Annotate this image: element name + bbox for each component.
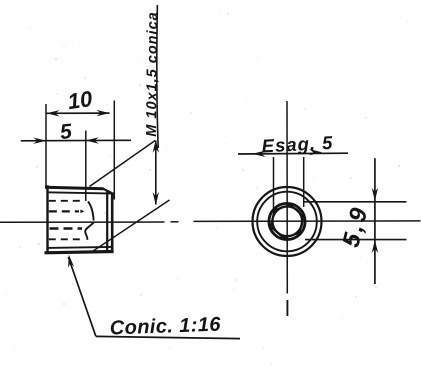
svg-text:Esag. 5: Esag. 5 (261, 132, 334, 157)
dimension 5,9: top extension line (304, 201, 407, 203)
hex socket hexagon (271, 205, 303, 238)
dimension 10: value label (66, 86, 94, 114)
svg-text:10: 10 (66, 86, 94, 114)
top-right chamfer edge (103, 189, 113, 194)
hidden line: hex socket top wall (dashed) (49, 200, 82, 202)
right end face inner line (106, 191, 108, 251)
thread callout vertical double-arrow line (153, 140, 159, 205)
socket drill-cone upper stroke (88, 202, 94, 221)
dimension Esag.5: label (261, 132, 334, 157)
taper leader arrow at bottom face (68, 255, 74, 268)
hidden line: socket inner upper (dashed) (49, 210, 79, 212)
hidden line: hex socket bottom wall (dashed) (49, 238, 81, 240)
plug body bottom crest edge (45, 252, 114, 253)
svg-text:Conic. 1:16: Conic. 1:16 (109, 314, 221, 340)
socket inner circle (hex inscribed) (272, 206, 302, 236)
dimension 10: dimension line with arrows (47, 110, 110, 117)
svg-text:M 10x1,5 conica: M 10x1,5 conica (144, 11, 161, 137)
thread root line top (47, 192, 114, 193)
dimension 5: value label (59, 120, 73, 144)
dimension Esag.5: dimension line (238, 149, 348, 157)
horizontal centerline (left view) (0, 221, 421, 222)
thread leader to top thread surface (90, 141, 156, 187)
dimension 5,9: rotated label (337, 202, 373, 250)
thread leader to bottom thread surface (92, 200, 170, 252)
socket drill-cone lower stroke (85, 223, 93, 240)
dimension 10: left extension line (45, 104, 47, 187)
dimension Esag.5: right extension line (hex flat) (303, 157, 305, 207)
dimension 5: extension line at socket depth (85, 131, 87, 202)
right end face outer line (111, 193, 114, 253)
dimension 10: right extension line (113, 101, 115, 200)
small tick at socket depth (80, 210, 84, 214)
taper leader line (68, 257, 96, 336)
plug body top crest edge (tapered thread) (45, 187, 104, 189)
inner circle: thread minor diameter (257, 192, 317, 252)
socket corner circle dia 5,9 (269, 203, 305, 239)
outer circle: thread major diameter (253, 187, 322, 256)
dimension 5,9: bottom extension line (305, 239, 407, 241)
thread callout text M 10x1,5 conica (rotated) (144, 11, 161, 137)
hidden line: socket inner lower (dashed) (50, 227, 83, 230)
dimension Esag.5: left extension line (hex flat) (273, 157, 275, 209)
vertical centerline (end view) (286, 101, 288, 316)
thread callout underline along text (157, 5, 158, 148)
thread root line bottom (47, 247, 113, 248)
dimension 5: dimension line with outside arrows (21, 137, 131, 144)
plug body left face (46, 185, 48, 253)
taper note text Conic. 1:16 (109, 314, 221, 340)
dimension 5,9: vertical dimension line with arrows (372, 158, 378, 284)
taper note underline (96, 336, 240, 338)
